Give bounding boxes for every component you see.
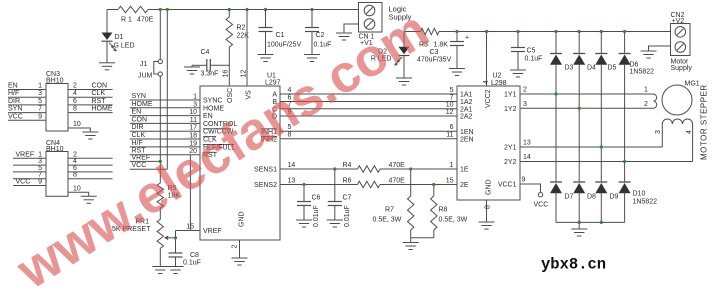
wires INH1 INH2 with pin numbers xyxy=(280,124,457,139)
svg-text:2Y1: 2Y1 xyxy=(504,145,517,152)
svg-text:9: 9 xyxy=(38,113,42,120)
svg-text:1A2: 1A2 xyxy=(460,99,473,106)
svg-text:470E: 470E xyxy=(389,162,406,169)
net labels CN4 left xyxy=(16,151,35,185)
capacitor C5 xyxy=(511,32,542,71)
svg-text:R 1: R 1 xyxy=(121,17,132,24)
svg-text:10: 10 xyxy=(73,121,81,128)
U2 pin name labels xyxy=(460,89,517,195)
svg-text:15: 15 xyxy=(446,177,454,184)
svg-text:C1: C1 xyxy=(276,32,285,39)
capacitor C7 xyxy=(328,167,352,227)
svg-text:3: 3 xyxy=(38,90,42,97)
svg-text:10: 10 xyxy=(73,185,81,192)
svg-text:SYNC: SYNC xyxy=(203,98,222,105)
resistor R6 xyxy=(343,178,406,188)
svg-text:+V2: +V2 xyxy=(672,18,685,25)
svg-text:ybx8.cn: ybx8.cn xyxy=(541,256,606,274)
svg-text:U1: U1 xyxy=(267,73,276,80)
svg-text:HOME: HOME xyxy=(92,106,113,113)
svg-text:2A1: 2A1 xyxy=(460,106,473,113)
svg-text:470E: 470E xyxy=(137,17,154,24)
svg-text:H/F: H/F xyxy=(132,140,143,147)
capacitor C3 xyxy=(417,32,469,69)
wire VCC column from bus xyxy=(166,10,168,170)
wires CN3 right pins xyxy=(68,83,113,113)
svg-text:1N5822: 1N5822 xyxy=(633,199,658,206)
wire VCC net row xyxy=(130,162,168,169)
svg-text:2: 2 xyxy=(644,101,648,108)
svg-text:EN: EN xyxy=(132,109,142,116)
ground at C4 xyxy=(184,65,200,74)
node junction C5 xyxy=(516,30,519,33)
wire RST to VREF riser xyxy=(189,155,191,231)
wire VS pin 12 stub xyxy=(241,10,248,87)
svg-text:C7: C7 xyxy=(343,195,352,202)
node junctions on logic bus xyxy=(159,8,314,11)
wires CN4 left pins xyxy=(13,151,46,185)
U1 left pin numbers xyxy=(186,94,197,231)
svg-text:3: 3 xyxy=(523,101,527,108)
wire 2Y2 to motor phase 4 xyxy=(520,124,693,163)
svg-text:C8: C8 xyxy=(190,252,199,259)
wire U1 GND pin 2 stub xyxy=(232,240,240,258)
ground under C3 xyxy=(449,69,465,76)
svg-text:D1: D1 xyxy=(115,34,124,41)
svg-text:R7: R7 xyxy=(385,207,394,214)
connector CN2 motor supply xyxy=(671,12,693,72)
svg-text:0.5E, 3W: 0.5E, 3W xyxy=(439,217,468,224)
svg-text:D4: D4 xyxy=(587,65,596,72)
svg-text:1: 1 xyxy=(450,162,454,169)
svg-text:11: 11 xyxy=(446,132,453,139)
svg-text:16: 16 xyxy=(223,70,230,78)
svg-text:0.1uF: 0.1uF xyxy=(183,260,201,267)
resistor R2 xyxy=(226,10,249,66)
capacitor C1 xyxy=(259,10,302,55)
svg-text:D10: D10 xyxy=(633,191,646,198)
svg-text:R4: R4 xyxy=(343,162,352,169)
ground at CN4 xyxy=(81,196,97,203)
svg-text:CLK: CLK xyxy=(132,132,146,139)
capacitor C2 xyxy=(305,10,331,55)
svg-text:0.1uF: 0.1uF xyxy=(525,56,543,63)
svg-text:GND: GND xyxy=(486,179,493,195)
wires CN4 right pins xyxy=(68,151,113,178)
diode D4 column with diode D8 xyxy=(573,32,585,223)
resistor R1 xyxy=(118,6,154,23)
LED D2 (red) xyxy=(371,32,410,79)
svg-text:1Y2: 1Y2 xyxy=(504,106,517,113)
ground under C6 xyxy=(296,220,312,227)
capacitor C6 xyxy=(297,183,321,227)
svg-text:H/F: H/F xyxy=(8,90,19,97)
svg-text:SENS2: SENS2 xyxy=(254,182,277,189)
net labels CN3 left xyxy=(8,83,23,121)
svg-text:4: 4 xyxy=(73,90,77,97)
svg-text:SYN: SYN xyxy=(132,93,146,100)
svg-text:J1: J1 xyxy=(140,61,148,68)
net labels U1 inputs xyxy=(132,93,153,155)
ground under U2 xyxy=(479,222,495,229)
svg-text:7: 7 xyxy=(450,94,454,101)
svg-text:U2: U2 xyxy=(493,73,502,80)
svg-text:MG1: MG1 xyxy=(685,81,700,88)
net labels CN3 right xyxy=(92,83,113,113)
svg-text:6: 6 xyxy=(450,124,454,131)
connector CN1 logic supply xyxy=(359,3,412,48)
svg-text:VREF: VREF xyxy=(203,228,222,235)
wire CN2 negative to ground xyxy=(649,46,671,51)
jumper J1 xyxy=(138,10,162,80)
ground at diode bus xyxy=(571,222,587,236)
wire CN1 negative to ground xyxy=(344,24,359,33)
svg-text:6: 6 xyxy=(73,98,77,105)
svg-text:D3: D3 xyxy=(565,65,574,72)
svg-text:1: 1 xyxy=(644,87,648,94)
resistor R8 xyxy=(431,183,468,238)
svg-text:7: 7 xyxy=(38,106,42,113)
svg-text:Supply: Supply xyxy=(671,65,693,72)
node junction VCC2 xyxy=(485,30,488,33)
diode D3 column with diode D7 xyxy=(550,32,562,223)
svg-text:2Y2: 2Y2 xyxy=(504,159,517,166)
svg-text:C2: C2 xyxy=(316,32,325,39)
diode D6 column with diode D10 xyxy=(619,32,631,223)
IC U1 L297 stepper controller xyxy=(200,73,281,241)
svg-text:SYN: SYN xyxy=(8,106,22,113)
svg-text:2A2: 2A2 xyxy=(460,114,473,121)
svg-text:1A1: 1A1 xyxy=(460,92,473,99)
resistor R4 xyxy=(343,162,406,172)
watermark ybx8.cn xyxy=(541,256,606,274)
svg-text:0.1uF: 0.1uF xyxy=(314,42,332,49)
svg-text:17: 17 xyxy=(189,125,197,132)
svg-text:VCC2: VCC2 xyxy=(485,89,492,108)
svg-text:R2: R2 xyxy=(237,25,246,32)
svg-text:2: 2 xyxy=(73,83,77,90)
label MOTOR STEPPER xyxy=(700,84,709,160)
svg-text:SENS1: SENS1 xyxy=(254,167,277,174)
diode labels bottom row xyxy=(565,191,658,206)
svg-text:CON: CON xyxy=(132,116,148,123)
svg-text:D8: D8 xyxy=(587,194,596,201)
svg-text:2E: 2E xyxy=(460,182,469,189)
svg-text:D6: D6 xyxy=(630,62,639,69)
capacitor C8 xyxy=(169,252,201,267)
svg-text:0.01uF: 0.01uF xyxy=(313,205,320,227)
wire 1Y2 to motor phase 2 xyxy=(520,107,654,110)
wire U2 VCC1 pin 9 to VCC xyxy=(520,184,548,209)
svg-text:100uF/25V: 100uF/25V xyxy=(267,42,302,49)
svg-text:EN: EN xyxy=(8,83,18,90)
svg-text:MOTOR STEPPER: MOTOR STEPPER xyxy=(700,84,709,160)
connector CN4 BH10 xyxy=(46,140,68,196)
wire +V2 motor bus xyxy=(404,31,671,33)
node junction C3 on bus xyxy=(455,30,458,33)
svg-text:G LED: G LED xyxy=(114,43,135,50)
U1 pin name labels xyxy=(203,88,277,235)
ground under U1 xyxy=(232,258,248,265)
wire +5V logic bus xyxy=(107,9,359,11)
svg-text:9: 9 xyxy=(38,179,42,186)
svg-text:1Y1: 1Y1 xyxy=(504,92,517,99)
watermark www.elecfans.com xyxy=(6,0,439,293)
svg-text:DIR: DIR xyxy=(132,124,144,131)
svg-text:2EN: 2EN xyxy=(460,136,474,143)
svg-text:14: 14 xyxy=(523,154,531,161)
svg-text:3: 3 xyxy=(655,130,662,134)
ground at CN1 xyxy=(336,33,352,40)
svg-text:+: + xyxy=(465,35,469,42)
wire SENS1 row xyxy=(280,162,457,169)
svg-text:BH10: BH10 xyxy=(46,78,64,85)
wire U1 VREF pin 15 row xyxy=(176,230,201,232)
svg-text:8: 8 xyxy=(484,205,491,209)
svg-text:12: 12 xyxy=(446,109,454,116)
svg-text:C5: C5 xyxy=(527,48,536,55)
svg-text:RST: RST xyxy=(92,98,107,105)
wire bottom diode ground bus xyxy=(556,221,625,224)
svg-text:10: 10 xyxy=(189,109,197,116)
wires CN3 left pins xyxy=(8,83,46,121)
svg-text:4: 4 xyxy=(483,80,490,84)
U2 right pin numbers xyxy=(522,87,531,184)
ground under C7 xyxy=(327,220,343,227)
svg-text:0.01uF: 0.01uF xyxy=(344,205,351,227)
svg-text:2: 2 xyxy=(232,245,239,249)
svg-text:R8: R8 xyxy=(439,207,448,214)
svg-text:3.3nF: 3.3nF xyxy=(201,71,219,78)
svg-text:5: 5 xyxy=(38,98,42,105)
svg-text:L298: L298 xyxy=(491,80,507,87)
svg-text:CLK: CLK xyxy=(92,90,106,97)
svg-text:13: 13 xyxy=(523,140,531,147)
motor pin labels xyxy=(644,87,693,135)
diode D5 column with diode D9 xyxy=(595,32,607,223)
svg-text:1N5822: 1N5822 xyxy=(630,69,655,76)
IC U2 L298 dual H-bridge xyxy=(457,73,520,201)
wire CN4 pin 10 to ground xyxy=(68,185,89,196)
resistor R3 xyxy=(419,28,448,48)
svg-text:CON: CON xyxy=(92,83,108,90)
stepper motor MG1 xyxy=(654,81,700,125)
svg-text:1EN: 1EN xyxy=(460,129,474,136)
svg-text:10: 10 xyxy=(446,102,454,109)
svg-text:1: 1 xyxy=(193,94,197,101)
svg-text:HOME: HOME xyxy=(203,105,224,112)
wire J1 to VREF node xyxy=(159,76,161,161)
wire CN3 pin 10 to ground xyxy=(68,121,90,132)
ground under R7 R8 xyxy=(403,238,419,250)
node junctions on motor bus xyxy=(554,30,626,33)
svg-text:0.5E, 3W: 0.5E, 3W xyxy=(373,217,402,224)
wire VREF net row xyxy=(130,154,162,163)
wire U2 VCC2 pin 4 stub xyxy=(483,32,490,87)
svg-text:VCC: VCC xyxy=(16,179,31,186)
svg-text:D5: D5 xyxy=(608,65,617,72)
svg-text:8: 8 xyxy=(73,172,77,179)
wire 1Y1 to motor phase 1 xyxy=(520,92,654,95)
LED D1 (green) xyxy=(102,10,135,63)
svg-text:HOME: HOME xyxy=(132,101,153,108)
ground under D2 xyxy=(396,78,412,85)
svg-text:11: 11 xyxy=(190,117,197,124)
svg-text:C4: C4 xyxy=(201,49,210,56)
svg-text:BH10: BH10 xyxy=(46,146,64,153)
capacitor C4 xyxy=(192,49,229,78)
diode labels top row xyxy=(565,62,655,76)
svg-text:9: 9 xyxy=(522,177,526,184)
svg-text:VCC: VCC xyxy=(534,202,549,209)
svg-text:1: 1 xyxy=(38,83,42,90)
svg-text:2: 2 xyxy=(523,87,527,94)
ground under C1 xyxy=(258,55,274,62)
svg-text:1E: 1E xyxy=(460,166,469,173)
svg-text:D7: D7 xyxy=(565,194,574,201)
wire SENS2 row xyxy=(280,177,457,184)
ground under D1 xyxy=(99,63,115,70)
svg-text:D9: D9 xyxy=(610,194,619,201)
svg-text:5: 5 xyxy=(450,87,454,94)
svg-text:14: 14 xyxy=(288,162,296,169)
svg-text:JUM: JUM xyxy=(138,73,153,80)
ground at CN3 xyxy=(82,132,98,139)
svg-text:DIR: DIR xyxy=(8,98,20,105)
svg-text:EN: EN xyxy=(203,113,213,120)
svg-text:VREF: VREF xyxy=(132,154,151,161)
svg-text:13: 13 xyxy=(288,177,296,184)
svg-text:C6: C6 xyxy=(312,195,321,202)
svg-text:3: 3 xyxy=(193,101,197,108)
svg-text:VCC1: VCC1 xyxy=(498,182,517,189)
wire R7 R8 common xyxy=(411,237,434,239)
ground at CN2 xyxy=(641,51,657,58)
svg-text:R6: R6 xyxy=(343,178,352,185)
wires phase lines A B C D with pin numbers xyxy=(280,87,457,116)
svg-text:VREF: VREF xyxy=(16,151,35,158)
svg-text:4: 4 xyxy=(686,130,693,134)
wire OSC pin 16 stub xyxy=(223,65,230,86)
svg-text:8: 8 xyxy=(73,106,77,113)
wires U1 input rows xyxy=(130,100,200,155)
wire wiper node xyxy=(174,231,177,254)
wire U2 GND pin 8 stub xyxy=(484,200,491,222)
potentiometer PR1 xyxy=(112,219,176,267)
svg-text:OSC: OSC xyxy=(227,88,234,103)
ground under PR1 xyxy=(152,267,168,274)
ground under C5 xyxy=(510,70,526,77)
connector CN3 BH10 xyxy=(46,71,68,131)
svg-text:12: 12 xyxy=(241,70,248,78)
resistor R5 xyxy=(157,161,180,219)
svg-text:470E: 470E xyxy=(389,178,406,185)
ground under C2 xyxy=(304,55,320,62)
svg-text:GND: GND xyxy=(238,211,245,227)
ground under C8 xyxy=(168,267,184,274)
resistor R7 xyxy=(373,167,414,237)
wire 2Y1 to motor phase 3 xyxy=(520,124,662,149)
svg-text:VCC: VCC xyxy=(8,113,23,120)
